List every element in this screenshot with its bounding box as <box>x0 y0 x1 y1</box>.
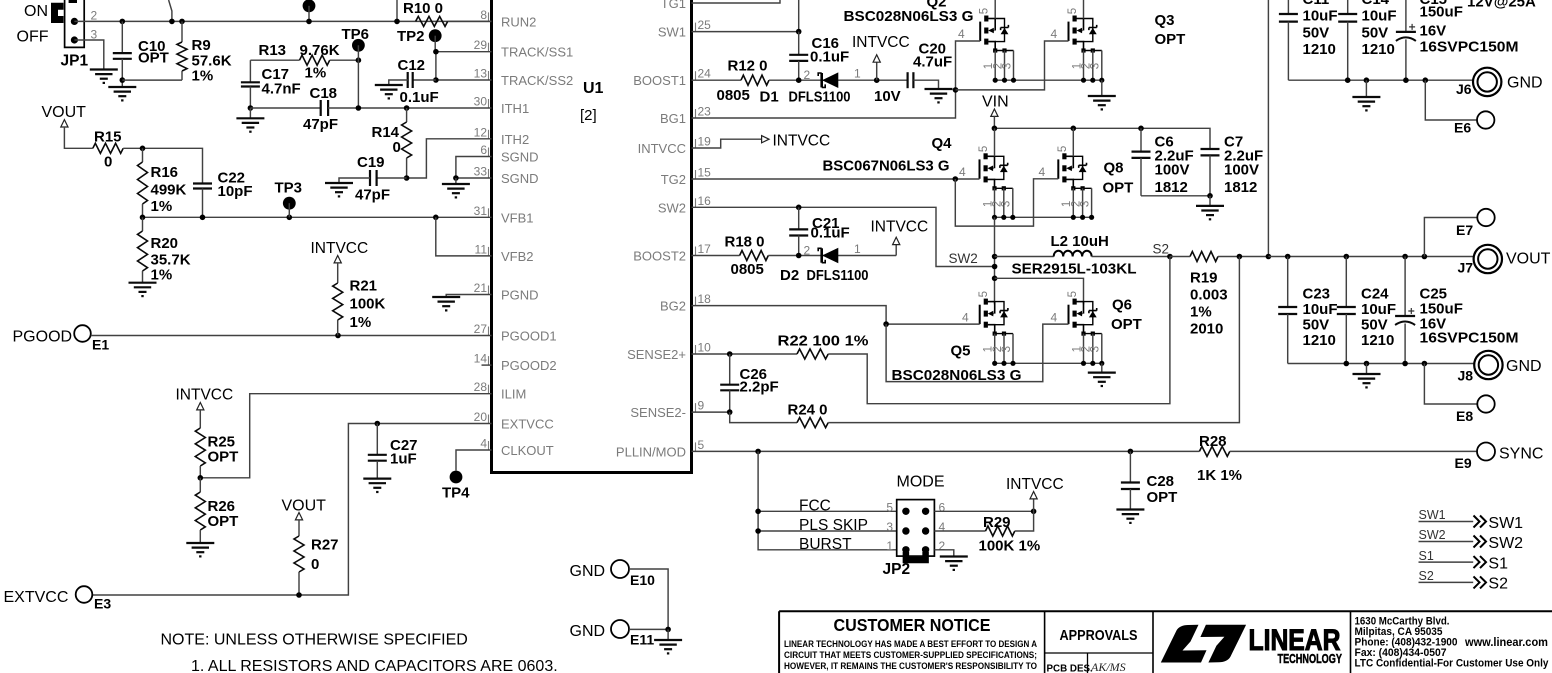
transistor Q4 <box>978 146 1013 218</box>
svg-text:Q3: Q3 <box>1155 12 1175 29</box>
svg-text:2: 2 <box>804 243 811 257</box>
svg-text:R28: R28 <box>1199 433 1227 450</box>
svg-text:DFLS1100: DFLS1100 <box>807 267 869 284</box>
junction R16/R20/VFB1 <box>140 215 146 221</box>
svg-text:16SVPC150M: 16SVPC150M <box>1420 330 1519 347</box>
wire VOUT top link riser <box>1267 0 1269 257</box>
svg-text:INTVCC: INTVCC <box>176 387 234 404</box>
wire VOUT cap ground rail <box>1288 363 1475 365</box>
wire EXTVCC net <box>92 424 491 596</box>
svg-text:INTVCC: INTVCC <box>852 34 910 51</box>
svg-text:10uF: 10uF <box>1303 301 1338 318</box>
capacitor C19 <box>377 177 407 179</box>
svg-text:2010: 2010 <box>1190 321 1223 338</box>
turret E8 <box>1477 395 1494 412</box>
svg-text:www.linear.com: www.linear.com <box>1464 636 1548 649</box>
junction SW2 pin wire <box>992 264 998 270</box>
wire SW1 net <box>692 31 799 33</box>
svg-text:R12 0: R12 0 <box>728 58 768 75</box>
svg-text:2: 2 <box>804 68 811 82</box>
svg-text:30: 30 <box>474 95 488 109</box>
svg-text:SW1: SW1 <box>1488 515 1523 532</box>
test point TP3 <box>283 197 296 210</box>
turret E9 <box>1477 443 1495 461</box>
junction C10/R9 bottom <box>120 77 126 83</box>
svg-text:TECHNOLOGY: TECHNOLOGY <box>1278 651 1343 666</box>
transistor Q5 <box>978 291 1013 363</box>
junction E8 riser <box>1422 361 1428 367</box>
svg-text:FCC: FCC <box>799 498 831 515</box>
resistor R9 <box>181 21 183 42</box>
wire PGND pin 21 <box>446 295 491 298</box>
svg-text:1uF: 1uF <box>390 451 417 468</box>
svg-text:4: 4 <box>1039 165 1046 179</box>
JP1 pin 3 <box>71 36 78 43</box>
junction E7 riser <box>1422 254 1428 260</box>
svg-text:50V: 50V <box>1361 317 1388 334</box>
svg-text:0805: 0805 <box>717 87 750 104</box>
TP6 stem / R13 right junction <box>356 57 362 63</box>
junction C23 <box>1285 254 1291 260</box>
svg-text:R18 0: R18 0 <box>725 234 765 251</box>
svg-text:13: 13 <box>474 67 488 81</box>
svg-text:5: 5 <box>1057 146 1069 152</box>
junction source stub <box>1001 361 1006 366</box>
junction C15 gnd <box>1403 77 1409 83</box>
junction PLLIN/JP2 riser <box>755 449 761 455</box>
svg-text:Q8: Q8 <box>1104 160 1124 177</box>
svg-text:5: 5 <box>978 291 990 297</box>
svg-text:3: 3 <box>1079 201 1091 207</box>
junction RUN2/R9 <box>179 19 185 25</box>
junction TP3/VFB1 <box>287 215 293 221</box>
svg-text:1: 1 <box>886 539 893 553</box>
ground C28 <box>1116 508 1144 510</box>
resistor R18 <box>740 251 769 261</box>
inductor L2 <box>995 256 1054 258</box>
svg-text:PCB DES.: PCB DES. <box>1047 664 1094 673</box>
junction SGND <box>453 175 459 181</box>
svg-text:1210: 1210 <box>1303 41 1336 58</box>
wire TRACK/SS1-TRACK/SS2 net <box>436 52 492 80</box>
svg-text:100K 1%: 100K 1% <box>979 538 1041 555</box>
svg-text:VIN: VIN <box>982 94 1009 111</box>
junction C7/ground <box>1207 193 1213 199</box>
ground PGND <box>432 296 460 298</box>
turret E7 <box>1477 209 1494 226</box>
svg-text:OPT: OPT <box>208 449 239 466</box>
svg-text:BOOST2: BOOST2 <box>633 249 686 264</box>
svg-text:10uF: 10uF <box>1362 8 1397 25</box>
wire JP2 pin6 to INTVCC <box>934 510 1033 512</box>
junction R25/R26/ILIM <box>198 475 204 481</box>
svg-text:BURST: BURST <box>799 536 852 553</box>
junction R19/SENSE2- tap <box>1237 254 1243 260</box>
svg-text:AK/MS: AK/MS <box>1090 660 1126 673</box>
diode D1 DFLS1100 <box>823 73 838 87</box>
svg-text:17: 17 <box>698 242 712 256</box>
svg-text:PGOOD: PGOOD <box>13 329 73 346</box>
svg-text:3: 3 <box>886 520 893 534</box>
svg-text:R29: R29 <box>983 514 1011 531</box>
junction RUN2/R10 riser <box>394 19 400 25</box>
svg-text:20: 20 <box>474 410 488 424</box>
capacitor C21 <box>798 207 800 229</box>
svg-text:4: 4 <box>962 311 969 325</box>
JP2 shunt jumper pins 1-2 <box>906 552 926 560</box>
svg-text:CUSTOMER NOTICE: CUSTOMER NOTICE <box>834 615 991 635</box>
wire Q5/Q6 source bus <box>995 362 1102 364</box>
ground VOUT caps <box>1366 364 1368 375</box>
transistor Q2 <box>979 8 1014 80</box>
junction BG2 gate bus <box>883 321 889 327</box>
svg-text:C18: C18 <box>310 85 338 102</box>
svg-text:R19: R19 <box>1190 270 1218 287</box>
svg-text:PLS SKIP: PLS SKIP <box>799 517 868 534</box>
svg-text:E3: E3 <box>94 596 111 612</box>
turret E3 <box>76 586 93 603</box>
svg-text:31: 31 <box>474 204 488 218</box>
svg-text:TRACK/SS2: TRACK/SS2 <box>501 73 573 88</box>
capacitor C27 <box>376 424 378 455</box>
wire BG2 net to gates <box>692 306 980 325</box>
svg-text:E6: E6 <box>1454 120 1471 136</box>
wire Q2/Q3 source bus <box>995 79 1102 81</box>
test point TP4 <box>450 471 463 484</box>
connector JP1 body <box>65 0 85 47</box>
junction source stub <box>1010 361 1015 366</box>
svg-text:2: 2 <box>939 539 946 553</box>
svg-text:12V@25A: 12V@25A <box>1467 0 1536 11</box>
junction ITH1/R14 <box>404 105 410 111</box>
svg-text:TG2: TG2 <box>661 172 686 187</box>
svg-text:PGND: PGND <box>501 288 539 303</box>
svg-text:1812: 1812 <box>1224 179 1257 196</box>
capacitor C20 <box>906 72 908 88</box>
wire JP2 select bus <box>758 451 897 549</box>
net label INTVCC (boost1) <box>876 62 878 80</box>
svg-text:BG2: BG2 <box>660 299 686 314</box>
svg-text:1812: 1812 <box>1155 179 1188 196</box>
junction SW2/L2 <box>992 254 998 260</box>
svg-text:2: 2 <box>91 9 98 23</box>
svg-text:6: 6 <box>480 143 487 157</box>
capacitor C23 <box>1287 257 1289 308</box>
svg-text:100V: 100V <box>1224 162 1259 179</box>
junction source stub <box>1090 361 1095 366</box>
svg-text:0: 0 <box>104 154 112 171</box>
junction source stub <box>1080 215 1085 220</box>
svg-text:GND: GND <box>1507 75 1543 92</box>
capacitor C24 <box>1345 257 1347 308</box>
junction R27/EXTVCC wire <box>296 592 302 598</box>
ground Q2/Q3 sources <box>1101 80 1103 96</box>
capacitor C18 <box>320 100 322 116</box>
svg-text:TP6: TP6 <box>342 26 370 43</box>
svg-text:4: 4 <box>939 520 946 534</box>
junction C17 bottom / ground / C18 <box>248 105 254 111</box>
svg-text:SYNC: SYNC <box>1499 446 1543 463</box>
svg-text:ON: ON <box>24 3 48 20</box>
jack J6 <box>1473 68 1501 96</box>
turret E6 <box>1477 111 1494 128</box>
wire Q4/Q8 source bus <box>995 216 1092 218</box>
svg-text:21: 21 <box>474 281 488 295</box>
logo Linear Technology mark <box>1161 625 1207 663</box>
svg-text:499K: 499K <box>151 182 187 199</box>
resistor R19 <box>1190 252 1218 262</box>
svg-text:E7: E7 <box>1456 222 1473 238</box>
svg-text:5: 5 <box>979 8 991 14</box>
svg-text:J7: J7 <box>1458 260 1474 276</box>
ground Q5/Q6 sources <box>1101 363 1103 372</box>
svg-text:SW2: SW2 <box>1488 535 1523 552</box>
svg-text:16SVPC150M: 16SVPC150M <box>1420 39 1519 56</box>
junction PLS row <box>755 528 761 534</box>
JP2 pin1/2 pads <box>902 546 909 553</box>
wire TG1 net <box>692 0 781 3</box>
junction pin6/R29 riser <box>1031 509 1037 515</box>
junction C24 gnd <box>1344 361 1350 367</box>
svg-text:C19: C19 <box>357 154 385 171</box>
svg-text:0.1uF: 0.1uF <box>811 225 850 242</box>
svg-text:OFF: OFF <box>17 29 49 46</box>
svg-text:E9: E9 <box>1455 455 1472 471</box>
svg-text:8: 8 <box>480 8 487 22</box>
svg-text:C12: C12 <box>398 57 426 74</box>
svg-text:0.003: 0.003 <box>1190 287 1228 304</box>
svg-text:S1: S1 <box>1419 549 1434 563</box>
wire R15 to C22 top <box>123 148 202 183</box>
turret E10 <box>611 560 629 578</box>
svg-text:JP2: JP2 <box>883 561 911 578</box>
svg-text:SENSE2+: SENSE2+ <box>627 347 686 362</box>
svg-text:LINEAR TECHNOLOGY HAS MADE A B: LINEAR TECHNOLOGY HAS MADE A BEST EFFORT… <box>784 639 1037 650</box>
wire gate bus to Q6 <box>886 324 1068 382</box>
junction source stub <box>1001 215 1006 220</box>
svg-text:100V: 100V <box>1155 162 1190 179</box>
resistor R16 <box>142 148 144 162</box>
wire riser to top edge at x397 <box>396 0 398 21</box>
svg-text:SGND: SGND <box>501 171 539 186</box>
svg-text:HOWEVER, IT REMAINS THE CUSTOM: HOWEVER, IT REMAINS THE CUSTOMER'S RESPO… <box>784 661 1037 672</box>
ground R20 <box>129 282 157 284</box>
wire L2 to S2 node <box>1092 256 1170 258</box>
wire R13 left segment <box>250 59 299 61</box>
capacitor C28 <box>1129 451 1131 482</box>
junction C21/BOOST2 <box>796 253 802 259</box>
Q3 drain stub to top <box>1083 0 1085 19</box>
jack J7 <box>1474 245 1502 273</box>
wire JP1 pin3 to ground <box>74 40 103 70</box>
junction ITH1/TP6 column <box>356 105 362 111</box>
wire PLS SKIP row <box>758 530 897 532</box>
junction SS2/C12 <box>433 77 439 83</box>
junction VIN arrow <box>992 126 998 132</box>
svg-text:R24 0: R24 0 <box>788 402 828 419</box>
wire gate bus to Q8 <box>955 179 1058 226</box>
ground C12 <box>375 84 403 86</box>
junction S2 sense tap <box>1167 254 1173 260</box>
svg-text:S2: S2 <box>1153 242 1170 257</box>
svg-text:50V: 50V <box>1362 25 1389 42</box>
svg-text:0.1uF: 0.1uF <box>400 89 439 106</box>
junction source stub <box>1089 215 1094 220</box>
svg-text:PGOOD2: PGOOD2 <box>501 358 557 373</box>
resistor R28 <box>1199 446 1229 456</box>
svg-text:Q5: Q5 <box>951 343 971 360</box>
junction C24 <box>1344 254 1350 260</box>
svg-text:GND: GND <box>1506 358 1542 375</box>
wire BG1 net to gates <box>692 41 981 118</box>
junction gnd stem top <box>1364 77 1370 83</box>
junction E6 riser <box>1423 77 1429 83</box>
test point TP6 <box>352 39 365 52</box>
svg-text:TP3: TP3 <box>275 180 303 197</box>
svg-text:SENSE2-: SENSE2- <box>630 405 686 420</box>
svg-text:ITH2: ITH2 <box>501 132 529 147</box>
junction source stub <box>1081 361 1086 366</box>
wire ITH2 net <box>407 139 492 178</box>
resistor R15 <box>93 143 123 153</box>
junction C25 <box>1402 254 1408 260</box>
wire VFB1 net <box>143 216 492 218</box>
capacitor C6 <box>1140 128 1142 151</box>
svg-text:3: 3 <box>1001 63 1013 69</box>
resistor R27 <box>298 520 300 536</box>
capacitor C25 electrolytic <box>1404 257 1406 317</box>
svg-text:[2]: [2] <box>580 107 597 124</box>
svg-text:14: 14 <box>474 352 488 366</box>
wire CLKOUT to TP4 <box>456 450 492 471</box>
svg-text:S1: S1 <box>1488 555 1508 572</box>
svg-text:1: 1 <box>854 67 861 81</box>
svg-text:4: 4 <box>1051 311 1058 325</box>
capacitor C15 electrolytic <box>1405 0 1407 32</box>
wire PLLIN/MOD net <box>692 450 1200 452</box>
capacitor C11 <box>1287 0 1289 14</box>
wire riser to top edge at x171 <box>169 0 172 21</box>
svg-text:15: 15 <box>698 166 712 180</box>
capacitor C22 <box>193 182 212 184</box>
wire SGND pins 6/33 <box>456 157 492 179</box>
svg-text:C28: C28 <box>1147 473 1175 490</box>
JP2 pin5/6 pads <box>902 508 909 515</box>
wire BOOST2 net <box>692 255 740 257</box>
svg-text:10: 10 <box>698 341 712 355</box>
svg-text:50V: 50V <box>1303 317 1330 334</box>
svg-text:OPT: OPT <box>208 513 239 530</box>
wire SENSE2- net <box>692 411 730 413</box>
svg-text:0805: 0805 <box>731 261 764 278</box>
junction C27/EXTVCC <box>375 421 381 427</box>
wire E6 riser <box>1425 80 1477 120</box>
resistor R22 <box>797 349 828 359</box>
net label INTVCC (boost2) <box>895 245 897 256</box>
wire SENSE2+ net <box>692 353 798 355</box>
svg-text:23: 23 <box>698 105 712 119</box>
svg-text:9.76K: 9.76K <box>300 42 340 59</box>
svg-text:R20: R20 <box>151 235 179 252</box>
wire R22 to S2 <box>828 257 1170 404</box>
resistor R25 <box>199 410 201 428</box>
junction C25 gnd <box>1402 361 1408 367</box>
wire ILIM net <box>200 394 491 478</box>
svg-text:2.2pF: 2.2pF <box>740 379 779 396</box>
svg-text:R22 100 1%: R22 100 1% <box>778 333 869 350</box>
svg-text:24: 24 <box>698 67 712 81</box>
transistor Q6 <box>1067 291 1102 363</box>
svg-text:19: 19 <box>698 135 712 149</box>
svg-text:TG1: TG1 <box>661 0 686 11</box>
resistor R10 <box>416 16 448 26</box>
wire INTVCC pin 19 stub <box>692 139 762 148</box>
junction source stub <box>992 361 997 366</box>
svg-text:PLLIN/MOD: PLLIN/MOD <box>616 444 686 459</box>
svg-text:INTVCC: INTVCC <box>638 141 686 156</box>
wire E8 riser <box>1424 364 1477 405</box>
svg-text:C23: C23 <box>1303 286 1331 303</box>
svg-text:11: 11 <box>475 242 488 256</box>
svg-text:VFB2: VFB2 <box>501 249 534 264</box>
svg-text:OPT: OPT <box>1147 489 1178 506</box>
resistor R21 <box>337 263 339 283</box>
svg-text:3: 3 <box>1090 346 1102 352</box>
svg-text:1%: 1% <box>192 68 214 85</box>
resistor R12 <box>741 75 769 85</box>
svg-text:E10: E10 <box>630 572 655 588</box>
wire C18 to U1 ITH1 <box>328 107 491 109</box>
JP2 pin3/4 pads <box>902 527 909 534</box>
junction TP2/SS1 <box>433 49 439 55</box>
svg-text:J8: J8 <box>1458 368 1474 384</box>
svg-text:100K: 100K <box>350 296 386 313</box>
svg-text:LTC Confidential-For Customer: LTC Confidential-For Customer Use Only <box>1355 658 1549 670</box>
svg-text:1. ALL RESISTORS AND CAPACITO: 1. ALL RESISTORS AND CAPACITORS ARE 0603… <box>191 658 558 673</box>
resistor R24 <box>797 418 828 428</box>
svg-text:APPROVALS: APPROVALS <box>1060 627 1138 644</box>
svg-text:R10 0: R10 0 <box>403 0 443 17</box>
junction SW1/C16 <box>796 29 802 35</box>
svg-text:VOUT: VOUT <box>1506 251 1551 268</box>
svg-text:VOUT: VOUT <box>282 498 327 515</box>
junction source stub <box>1081 78 1086 83</box>
svg-text:1%: 1% <box>350 314 372 331</box>
svg-text:EXTVCC: EXTVCC <box>4 589 69 606</box>
svg-text:1210: 1210 <box>1303 332 1336 349</box>
op-amp U1 LTC controller body <box>492 0 692 473</box>
svg-text:SER2915L-103KL: SER2915L-103KL <box>1012 261 1137 278</box>
junction R15/R16 <box>140 146 146 152</box>
svg-text:3: 3 <box>1090 63 1102 69</box>
svg-text:E11: E11 <box>630 632 654 648</box>
junction source stub <box>1090 78 1095 83</box>
wire BOOST1 net <box>692 79 742 81</box>
svg-text:BG1: BG1 <box>660 111 686 126</box>
wire R29 to INTVCC arrow <box>1015 499 1034 531</box>
svg-text:R27: R27 <box>311 537 339 554</box>
wire TG2 net to gates <box>692 178 980 180</box>
svg-text:3: 3 <box>1001 346 1013 352</box>
svg-text:150uF: 150uF <box>1420 4 1463 21</box>
svg-text:DFLS1100: DFLS1100 <box>789 89 851 106</box>
svg-text:L2 10uH: L2 10uH <box>1051 233 1109 250</box>
junction source stub <box>1010 215 1015 220</box>
svg-text:CIRCUIT THAT MEETS CUSTOMER-SU: CIRCUIT THAT MEETS CUSTOMER-SUPPLIED SPE… <box>784 650 1037 661</box>
wire gate bus to Q3 <box>956 41 1069 90</box>
ground ITH1 network <box>236 117 264 119</box>
svg-text:R9: R9 <box>192 37 211 54</box>
